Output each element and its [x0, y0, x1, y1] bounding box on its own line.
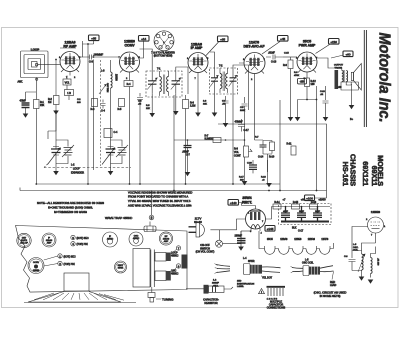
svg-text:ANT.: ANT.	[18, 81, 24, 84]
svg-text:2.2M: 2.2M	[190, 105, 195, 108]
node 2 circled with label (TOP) PRI	[58, 261, 75, 266]
oscillator coil L-3	[99, 60, 118, 98]
junction dots V1 area	[55, 43, 94, 60]
ground cathode network	[266, 183, 272, 187]
svg-text:R-16: R-16	[261, 177, 267, 179]
capacitor C-9	[242, 97, 248, 140]
svg-text:VOLTAGE READINGS SHOWN WERE ME: VOLTAGE READINGS SHOWN WERE MEASURED	[128, 190, 192, 194]
wire filament right end up	[333, 243, 335, 249]
wire grid circuit verticals	[56, 48, 76, 111]
electrolytic C-20	[247, 160, 257, 173]
svg-text:OSC COIL: OSC COIL	[302, 262, 314, 265]
svg-text:R-11: R-11	[287, 143, 293, 146]
cathode resistor R-3 below V1	[65, 90, 74, 96]
wire cathode to coils	[362, 243, 376, 251]
label pin numbers V5	[296, 58, 318, 81]
svg-text:AVC-AF: AVC-AF	[20, 242, 28, 245]
ground R-9	[288, 117, 294, 121]
label R-7 3.3MEG	[205, 135, 222, 143]
wire switch to filter junction	[223, 231, 242, 244]
cathode network C-14 R-10	[258, 141, 275, 173]
svg-text:C-17: C-17	[298, 230, 304, 233]
bottom bus line 2	[20, 190, 327, 192]
svg-text:12BA6: 12BA6	[280, 238, 288, 241]
svg-text:VC1: VC1	[65, 81, 70, 84]
resistor R-1	[34, 100, 45, 109]
wire V3 plate to T2	[210, 52, 215, 68]
wire V5 plate to T-3 primary	[316, 45, 342, 71]
svg-text:12AT6: 12AT6	[321, 238, 329, 241]
svg-text:BLK: BLK	[292, 227, 297, 230]
svg-text:C-15: C-15	[284, 53, 290, 55]
wire C-7 ground	[187, 151, 189, 172]
osc coil winding B	[371, 247, 376, 278]
wire T2 to diode plate V4	[233, 65, 249, 110]
svg-text:IF AMP: IF AMP	[191, 46, 203, 50]
screen resistor R-2 box below V1	[63, 79, 71, 85]
svg-text:OSC.: OSC.	[353, 247, 359, 249]
svg-text:200MF: 200MF	[212, 283, 219, 285]
tube V2b 12BE6 alt oscillator	[366, 217, 386, 237]
trimmer M-2 branch	[111, 140, 129, 164]
svg-text:HS-161: HS-161	[341, 162, 350, 186]
svg-text:CONNECTIONS: CONNECTIONS	[267, 307, 286, 310]
label pin numbers V1	[59, 57, 81, 79]
resistor R-16	[310, 201, 318, 209]
ground bar in filter box	[281, 221, 329, 223]
svg-text:22K: 22K	[146, 108, 150, 110]
wire 35W4 plate to +140 box	[239, 203, 256, 206]
AVC cap C-7	[182, 140, 192, 157]
grid resistor box below V2	[124, 81, 133, 87]
wire leader red lead	[332, 272, 334, 280]
wire C-5 to bus	[139, 103, 141, 184]
svg-text:PWR AMP: PWR AMP	[299, 44, 316, 48]
svg-text:C-20: C-20	[247, 163, 253, 165]
svg-text:LOOP: LOOP	[31, 48, 40, 52]
svg-text:22K: 22K	[40, 104, 45, 107]
speaker harness cable leads left	[215, 264, 231, 274]
AC line plug P-1	[189, 223, 205, 238]
sidebar double rule left of logo	[364, 30, 366, 127]
ground gang2	[108, 171, 114, 175]
node 7 circled label LOOP 455KC	[171, 246, 181, 258]
osc components R-3 C-4	[91, 99, 98, 112]
capacitor C-17 detector	[235, 119, 250, 132]
svg-text:+140: +140	[230, 201, 237, 205]
svg-text:69X11: 69X11	[370, 166, 379, 186]
trimmer M-1 branch	[56, 140, 74, 164]
wire V1 plate to box and right	[80, 41, 94, 57]
padder capacitor C-4B box	[104, 129, 118, 138]
svg-text:35W4: 35W4	[118, 268, 124, 270]
dashed gang riser to oscillator	[100, 60, 102, 166]
ground T1 windings	[152, 94, 176, 113]
svg-text:OUTPUT: OUTPUT	[334, 65, 344, 67]
wire leaders from nodes 1,2 to converter socket	[44, 256, 58, 266]
svg-text:Motorola Inc.: Motorola Inc.	[376, 33, 393, 123]
socket 12BE6 CONV	[28, 258, 44, 274]
voltage box +14 at V2	[139, 36, 150, 42]
wire V2 plate up	[140, 41, 144, 58]
svg-text:CONV: CONV	[124, 44, 135, 48]
wire C-18	[325, 86, 327, 117]
B+ divider line	[272, 206, 331, 208]
svg-text:(BOT) SEC: (BOT) SEC	[77, 237, 89, 240]
svg-text:-150: -150	[300, 81, 305, 84]
svg-text:+80: +80	[301, 198, 306, 202]
svg-text:47MF: 47MF	[20, 100, 27, 103]
wire V4 plate up to box	[262, 42, 280, 55]
svg-text:35W4: 35W4	[242, 196, 251, 200]
svg-text:VTVM. NO SIGNAL WAS TUNED IN.: VTVM. NO SIGNAL WAS TUNED IN. INPUT VOLT…	[128, 199, 191, 203]
note voltage readings text	[128, 190, 192, 207]
label pin numbers V4	[243, 59, 266, 81]
osc harness plug	[303, 266, 320, 276]
dashed filter box	[279, 204, 332, 225]
svg-text:WAVE TRAP 455KC: WAVE TRAP 455KC	[105, 216, 133, 220]
svg-text:LOOP: LOOP	[73, 168, 80, 171]
svg-text:R-10: R-10	[269, 156, 275, 159]
wire V3 cathode ground	[197, 77, 199, 113]
wire plug line to C-16 junction	[241, 230, 251, 232]
wire V5 cathode	[306, 76, 308, 100]
warning triangle node	[259, 289, 265, 295]
wire x174 vertical AVC	[173, 95, 175, 191]
voltage box +85 at V3	[218, 36, 229, 42]
svg-text:R-5: R-5	[118, 108, 123, 111]
svg-text:150: 150	[311, 83, 316, 86]
tuning gang section 2 variable capacitor C-1B	[102, 98, 116, 171]
svg-text:1M: 1M	[48, 101, 51, 104]
on-off switch S-1	[216, 240, 223, 247]
filament heater V2 12BE6	[293, 249, 304, 255]
voltage box +45 at V4	[278, 36, 289, 42]
tube V3 12BA6 IF AMP	[188, 53, 208, 77]
voltage box +85V at V1 plate	[89, 35, 100, 41]
node 5 circled	[149, 215, 154, 220]
svg-text:40MF: 40MF	[283, 211, 289, 213]
svg-text:+110: +110	[330, 40, 337, 44]
bottom bus B- line	[36, 183, 280, 185]
capacitor C-18	[323, 96, 329, 107]
wire plug branch to switch	[219, 230, 221, 240]
tube V2 12BE6 CONV	[120, 52, 140, 76]
svg-text:20000: 20000	[115, 74, 118, 81]
wire 35W4 cathode right	[266, 207, 272, 220]
wire grid elbow to gang1	[48, 110, 56, 139]
svg-text:DET-AVC-AF: DET-AVC-AF	[244, 45, 266, 49]
svg-text:R-3: R-3	[91, 108, 96, 111]
socket RECT 35W4	[115, 261, 127, 273]
svg-text:455KC: 455KC	[133, 238, 140, 240]
speaker harness plug body	[244, 264, 263, 275]
svg-text:+90: +90	[345, 52, 350, 56]
resistor R-15	[292, 201, 300, 209]
node 4 circled with label (TOP) PRI	[71, 242, 88, 247]
svg-text:IDENTIFICATION: IDENTIFICATION	[237, 282, 255, 285]
label pin numbers V3	[187, 58, 209, 80]
tuning gang condenser block	[133, 249, 171, 288]
ground below C-16	[238, 247, 244, 251]
svg-text:12BA6: 12BA6	[308, 238, 316, 241]
svg-text:.160MMF: .160MMF	[93, 54, 104, 57]
svg-text:IN SOME SETS): IN SOME SETS)	[320, 294, 341, 298]
socket RF 12BA6 AMP	[159, 232, 172, 245]
svg-text:.05 400: .05 400	[377, 258, 379, 266]
osc harness leads right	[320, 266, 334, 272]
IF transformer T1 dashed can	[146, 68, 182, 98]
svg-text:455KC: 455KC	[171, 255, 179, 258]
loop antenna L-1	[21, 51, 49, 78]
svg-text:RESISTOR: RESISTOR	[204, 301, 217, 305]
wire secondary to voice coil	[346, 82, 351, 85]
svg-text:EXPANDER: EXPANDER	[71, 172, 84, 175]
svg-text:20MF: 20MF	[315, 211, 321, 213]
wire osc grid left and down	[352, 227, 376, 252]
svg-text:(TOP) PRI: (TOP) PRI	[77, 243, 88, 246]
ground C-18	[323, 117, 329, 121]
node 3 circled with label (BOT) SEC	[71, 235, 89, 240]
svg-text:+1000: +1000	[318, 198, 326, 202]
svg-text:FROM POINT INDICATED TO CHASSI: FROM POINT INDICATED TO CHASSIS WITH A	[128, 195, 188, 199]
osc harness leads left	[291, 266, 304, 273]
svg-text:LABEL: LABEL	[237, 285, 245, 288]
label TUNING	[156, 298, 174, 302]
ground speaker frame	[349, 105, 355, 109]
svg-text:(BOT) SEC: (BOT) SEC	[64, 255, 76, 258]
svg-text:+145: +145	[267, 227, 274, 231]
IF 455KC can	[103, 232, 118, 247]
speaker SP-1	[341, 64, 361, 91]
wire V1 cathode down through boxes to bus	[67, 76, 69, 101]
svg-text:+85: +85	[220, 37, 225, 41]
svg-text:60-60: 60-60	[194, 220, 202, 224]
svg-text:C-13: C-13	[271, 61, 277, 64]
socket IF 12BA6 AMP	[42, 233, 56, 247]
IF transformer T2 dashed can	[210, 65, 238, 95]
filament string line	[259, 231, 334, 249]
wire T1 secondary to V3 grid	[176, 67, 188, 94]
tuning gang section 1 variable capacitor C-1A	[48, 110, 62, 171]
capacitor C-3 160MMF coupling	[83, 54, 104, 64]
tube V6 35W4 RECT	[246, 206, 266, 235]
svg-text:C-18: C-18	[320, 91, 326, 93]
svg-text:CONT: CONT	[234, 155, 241, 158]
svg-text:YEL DOT: YEL DOT	[262, 277, 273, 280]
wire divider to 35W4 cathode	[271, 206, 273, 208]
svg-text:.01MF: .01MF	[268, 52, 275, 55]
capacitor C-1 47MF	[20, 92, 30, 114]
svg-text:SPKR: SPKR	[248, 260, 255, 263]
output transformer T-3 windings	[342, 70, 348, 82]
filament heater V5 35C5	[265, 249, 276, 255]
wire bus jog to +100 box	[315, 191, 327, 199]
ground below R-4	[53, 111, 59, 115]
filament heater V4 12AT6	[320, 249, 331, 255]
svg-text:47MMF: 47MMF	[235, 121, 244, 124]
ground osc coil B	[368, 280, 374, 284]
svg-text:R-17: R-17	[239, 177, 245, 179]
electrolytic C-17A	[281, 207, 290, 222]
svg-text:69X121: 69X121	[361, 161, 370, 186]
svg-text:C-4: C-4	[114, 131, 119, 134]
wire R-6	[185, 95, 187, 184]
dial base line	[24, 302, 136, 304]
svg-text:TUNING: TUNING	[162, 298, 174, 302]
svg-text:M=TRIMMERS ON GANG: M=TRIMMERS ON GANG	[54, 210, 87, 214]
wire B plus diagonal to +90 box	[331, 55, 344, 58]
svg-text:5: 5	[151, 216, 153, 220]
tube top view socket diagram	[154, 31, 174, 51]
dial housing bump	[64, 273, 89, 291]
svg-text:455KC: 455KC	[171, 273, 179, 276]
wire loop bottom to R-1	[26, 78, 37, 100]
wire V2 cathode to bus	[129, 76, 131, 184]
filament heater V1 12BA6	[306, 249, 317, 255]
wire feedback loop from speaker	[218, 124, 327, 191]
junction dots on bus	[35, 139, 317, 191]
ground gang1	[53, 171, 59, 175]
svg-text:(ON VOL CONT): (ON VOL CONT)	[196, 250, 215, 253]
voltage box +140	[228, 200, 239, 206]
ground on bus at vol line	[242, 181, 248, 185]
svg-text:+14: +14	[141, 37, 146, 41]
electrolytic C-17B	[297, 207, 306, 222]
junction dots divider	[285, 206, 319, 208]
svg-text:455KC: 455KC	[107, 239, 114, 241]
svg-text:12BE6: 12BE6	[294, 238, 302, 241]
ground osc coil A	[359, 277, 365, 281]
filament junction ticks	[265, 246, 331, 249]
svg-text:AMP: AMP	[47, 241, 52, 244]
coupling cap C-13	[266, 52, 283, 64]
wire V2 grid from C-3	[100, 56, 120, 58]
wire plate B+ vertical x88	[87, 44, 89, 184]
wave trap can on chassis	[144, 222, 156, 232]
svg-text:C-7: C-7	[186, 154, 191, 157]
tube V1 12BA6 RF AMP	[60, 52, 80, 76]
resistor R-4 left of V1	[48, 96, 59, 105]
osc coil winding A	[352, 251, 365, 273]
capacitor osc C-19	[344, 251, 356, 271]
svg-text:CONV: CONV	[33, 262, 40, 264]
svg-text:12BE6: 12BE6	[371, 210, 381, 214]
dial front trapezoid	[28, 292, 124, 303]
svg-text:12BE6: 12BE6	[33, 270, 40, 272]
tube V5 35C5 PWR AMP	[297, 52, 317, 76]
filter can capacitor on chassis edge	[182, 255, 188, 269]
capacitor C-8	[223, 96, 229, 107]
socket DET 12AT6 AVC-AF	[17, 233, 31, 247]
svg-text:35C5: 35C5	[267, 238, 273, 241]
svg-text:AGE WAS 117VAC. VOLTAGE TOLERA: AGE WAS 117VAC. VOLTAGE TOLERANCE ± 15%	[128, 204, 192, 208]
node 1 circled with label (BOT) SEC	[58, 254, 76, 259]
svg-text:3.3MEG: 3.3MEG	[205, 138, 214, 141]
svg-text:1 B: 1 B	[67, 92, 71, 95]
svg-text:(TOP) PRI: (TOP) PRI	[64, 263, 75, 266]
voltage box +145 cathode	[265, 226, 275, 232]
wire B+ vertical x316	[307, 86, 317, 191]
wire V5 grid from C-13	[283, 56, 297, 58]
speaker harness leads right	[262, 267, 281, 273]
wire B+ right rail	[279, 100, 281, 191]
svg-text:AMP: AMP	[164, 240, 169, 243]
svg-text:R-9: R-9	[283, 64, 288, 67]
wire V2 plate to T1	[140, 49, 153, 71]
svg-text:22K: 22K	[203, 104, 207, 106]
capacitor C-5 under V2	[137, 93, 143, 103]
tuning shaft	[148, 287, 155, 302]
loop bottom terminal	[36, 78, 38, 80]
OSC 455KC can	[129, 232, 143, 246]
resistor R-14	[273, 201, 281, 209]
grid resistor R-9	[283, 57, 293, 105]
ground T2 windings	[215, 91, 234, 185]
dashed gang coupling line	[44, 167, 131, 169]
tube V4 12AT6 DET-AVC-AF	[239, 53, 265, 141]
svg-text:2ND: 2ND	[237, 281, 242, 283]
wire C-8 down	[225, 107, 227, 123]
svg-text:C-3: C-3	[89, 61, 94, 64]
label pin numbers V2	[119, 57, 141, 80]
chassis outline top view	[16, 226, 188, 293]
svg-text:+99: +99	[337, 85, 342, 89]
svg-text:+100: +100	[306, 196, 313, 200]
svg-text:C-14: C-14	[258, 156, 264, 159]
multiple capacitor comb	[267, 287, 286, 301]
svg-text:RECT.: RECT.	[242, 201, 252, 205]
label YEL DOT	[261, 276, 273, 280]
wire loop to V1 grid	[38, 64, 60, 66]
cathode resistor R-6 2.2M	[183, 100, 196, 109]
svg-text:C-4: C-4	[101, 110, 106, 113]
wire plug to rectifier heater	[210, 219, 245, 230]
svg-text:+45: +45	[280, 37, 285, 41]
svg-text:30MF: 30MF	[299, 211, 305, 213]
ground C-8	[223, 123, 229, 127]
wire R-1 down to bus	[35, 109, 37, 185]
wire node 5 stem to bus	[151, 191, 153, 216]
wire V3 plate diagonal to box	[206, 42, 219, 56]
voltage box +110 at V5 plate	[329, 39, 340, 45]
filament heater V3 12BA6	[279, 249, 290, 255]
models / chassis vertical text block	[341, 154, 385, 186]
resistor R-11	[287, 143, 297, 156]
output transformer T-3 core	[335, 70, 339, 89]
svg-text:(BOTTOM VIEW): (BOTTOM VIEW)	[154, 55, 173, 58]
voltage box +100 under bus	[305, 195, 315, 201]
svg-text:+85: +85	[91, 36, 96, 40]
capacitor-resistor component	[186, 285, 233, 294]
AVC bus R-7	[174, 139, 245, 141]
electrolytic C-17C	[313, 207, 322, 222]
wire R-8 to bus	[244, 157, 246, 184]
cathode resistor R-12 below V5	[305, 78, 317, 87]
node 9 circled label OSC 455KC	[171, 264, 181, 276]
ground below C-1	[23, 114, 29, 118]
svg-text:R-4: R-4	[127, 83, 132, 86]
box -150 bias	[298, 79, 307, 84]
voltage box +90 screen	[343, 51, 353, 57]
wire bus left end cap	[19, 188, 21, 191]
svg-text:LEAD: LEAD	[330, 284, 337, 287]
volume control R-8	[234, 140, 252, 158]
wire screen vertical x93	[93, 60, 95, 171]
note resistors text	[37, 201, 104, 214]
capacitor C-16 150MF	[235, 231, 246, 247]
svg-text:470K: 470K	[294, 75, 300, 77]
